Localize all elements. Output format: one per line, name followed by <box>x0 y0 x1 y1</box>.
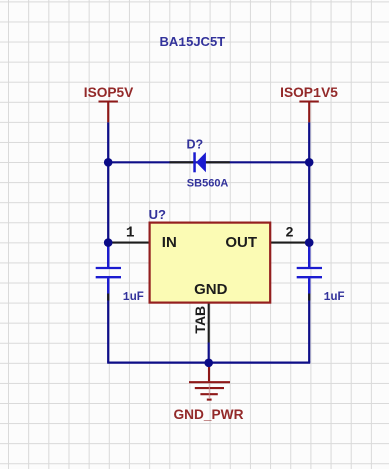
svg-text:1uF: 1uF <box>123 291 144 304</box>
svg-text:1: 1 <box>126 226 135 242</box>
svg-text:ISOP1V5: ISOP1V5 <box>280 85 338 102</box>
svg-text:OUT: OUT <box>225 234 257 251</box>
svg-text:D?: D? <box>187 138 204 152</box>
svg-text:1uF: 1uF <box>324 291 345 304</box>
svg-text:GND_PWR: GND_PWR <box>174 407 244 422</box>
svg-text:IN: IN <box>162 234 177 251</box>
svg-text:U?: U? <box>149 207 166 222</box>
svg-text:TAB: TAB <box>192 306 208 334</box>
svg-text:BA15JC5T: BA15JC5T <box>160 34 226 50</box>
svg-text:2: 2 <box>286 224 294 240</box>
svg-text:SB560A: SB560A <box>187 177 229 189</box>
svg-text:GND: GND <box>194 281 228 298</box>
svg-text:ISOP5V: ISOP5V <box>84 85 134 100</box>
